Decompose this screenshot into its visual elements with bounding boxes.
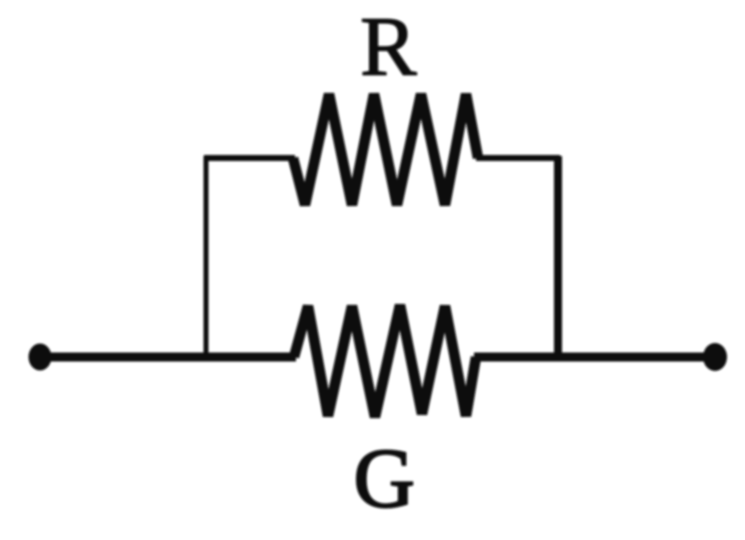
wire: left terminal to node A <box>40 353 206 362</box>
wire: left vertical branch (node A up to top rail) <box>204 156 209 359</box>
wire: top rail right segment <box>476 155 560 161</box>
wire: resistor G right end to node B <box>474 353 558 362</box>
resistor R <box>293 94 478 205</box>
wire: node B to right terminal <box>558 353 715 362</box>
resistor G <box>294 305 476 417</box>
terminal dot left <box>29 344 52 371</box>
wire: top rail left segment <box>204 155 295 161</box>
svg-text:G: G <box>354 432 415 526</box>
terminal dot right <box>703 343 727 371</box>
wire: right vertical branch (top rail down to node B) <box>554 156 562 359</box>
wire: node A to resistor G left end <box>206 353 296 362</box>
svg-text:R: R <box>360 0 417 94</box>
